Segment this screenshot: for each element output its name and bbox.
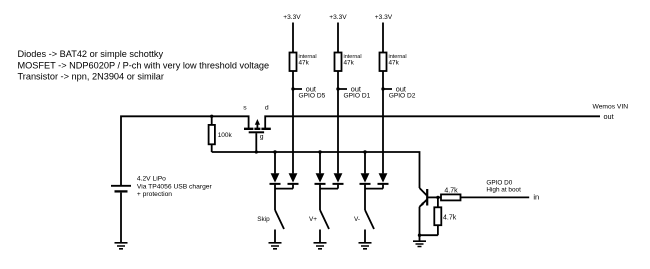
svg-text:High at boot: High at boot <box>486 186 521 193</box>
svg-text:in: in <box>533 193 539 202</box>
svg-text:GPIO D1: GPIO D1 <box>344 93 371 100</box>
svg-text:g: g <box>260 134 264 141</box>
svg-text:GPIO D2: GPIO D2 <box>389 93 416 100</box>
svg-text:out: out <box>604 112 614 121</box>
svg-text:Transistor -> npn, 2N3904 or s: Transistor -> npn, 2N3904 or similar <box>18 72 164 82</box>
svg-text:+3.3V: +3.3V <box>329 14 347 21</box>
svg-text:MOSFET -> NDP6020P / P-ch with: MOSFET -> NDP6020P / P-ch with very low … <box>18 60 270 70</box>
svg-text:Via TP4056 USB charger: Via TP4056 USB charger <box>137 183 213 190</box>
svg-text:47k: 47k <box>299 60 310 67</box>
svg-text:GPIO D0: GPIO D0 <box>486 179 512 186</box>
svg-text:4.2V LiPo: 4.2V LiPo <box>137 176 166 183</box>
svg-text:4.7k: 4.7k <box>444 188 458 195</box>
svg-text:V-: V- <box>354 216 360 223</box>
svg-text:47k: 47k <box>389 60 400 67</box>
svg-text:Wemos VIN: Wemos VIN <box>593 104 629 111</box>
svg-text:100k: 100k <box>218 132 233 139</box>
svg-text:s: s <box>243 104 247 111</box>
svg-text:Diodes -> BAT42 or simple scho: Diodes -> BAT42 or simple schottky <box>18 49 164 59</box>
svg-text:V+: V+ <box>309 216 317 223</box>
svg-text:+3.3V: +3.3V <box>283 14 301 21</box>
svg-text:Skip: Skip <box>257 216 270 223</box>
svg-text:d: d <box>265 104 269 111</box>
svg-text:4.7k: 4.7k <box>443 215 457 222</box>
svg-text:+ protection: + protection <box>137 191 172 198</box>
svg-text:GPIO D5: GPIO D5 <box>299 93 326 100</box>
svg-text:47k: 47k <box>344 60 355 67</box>
svg-text:+3.3V: +3.3V <box>375 14 393 21</box>
